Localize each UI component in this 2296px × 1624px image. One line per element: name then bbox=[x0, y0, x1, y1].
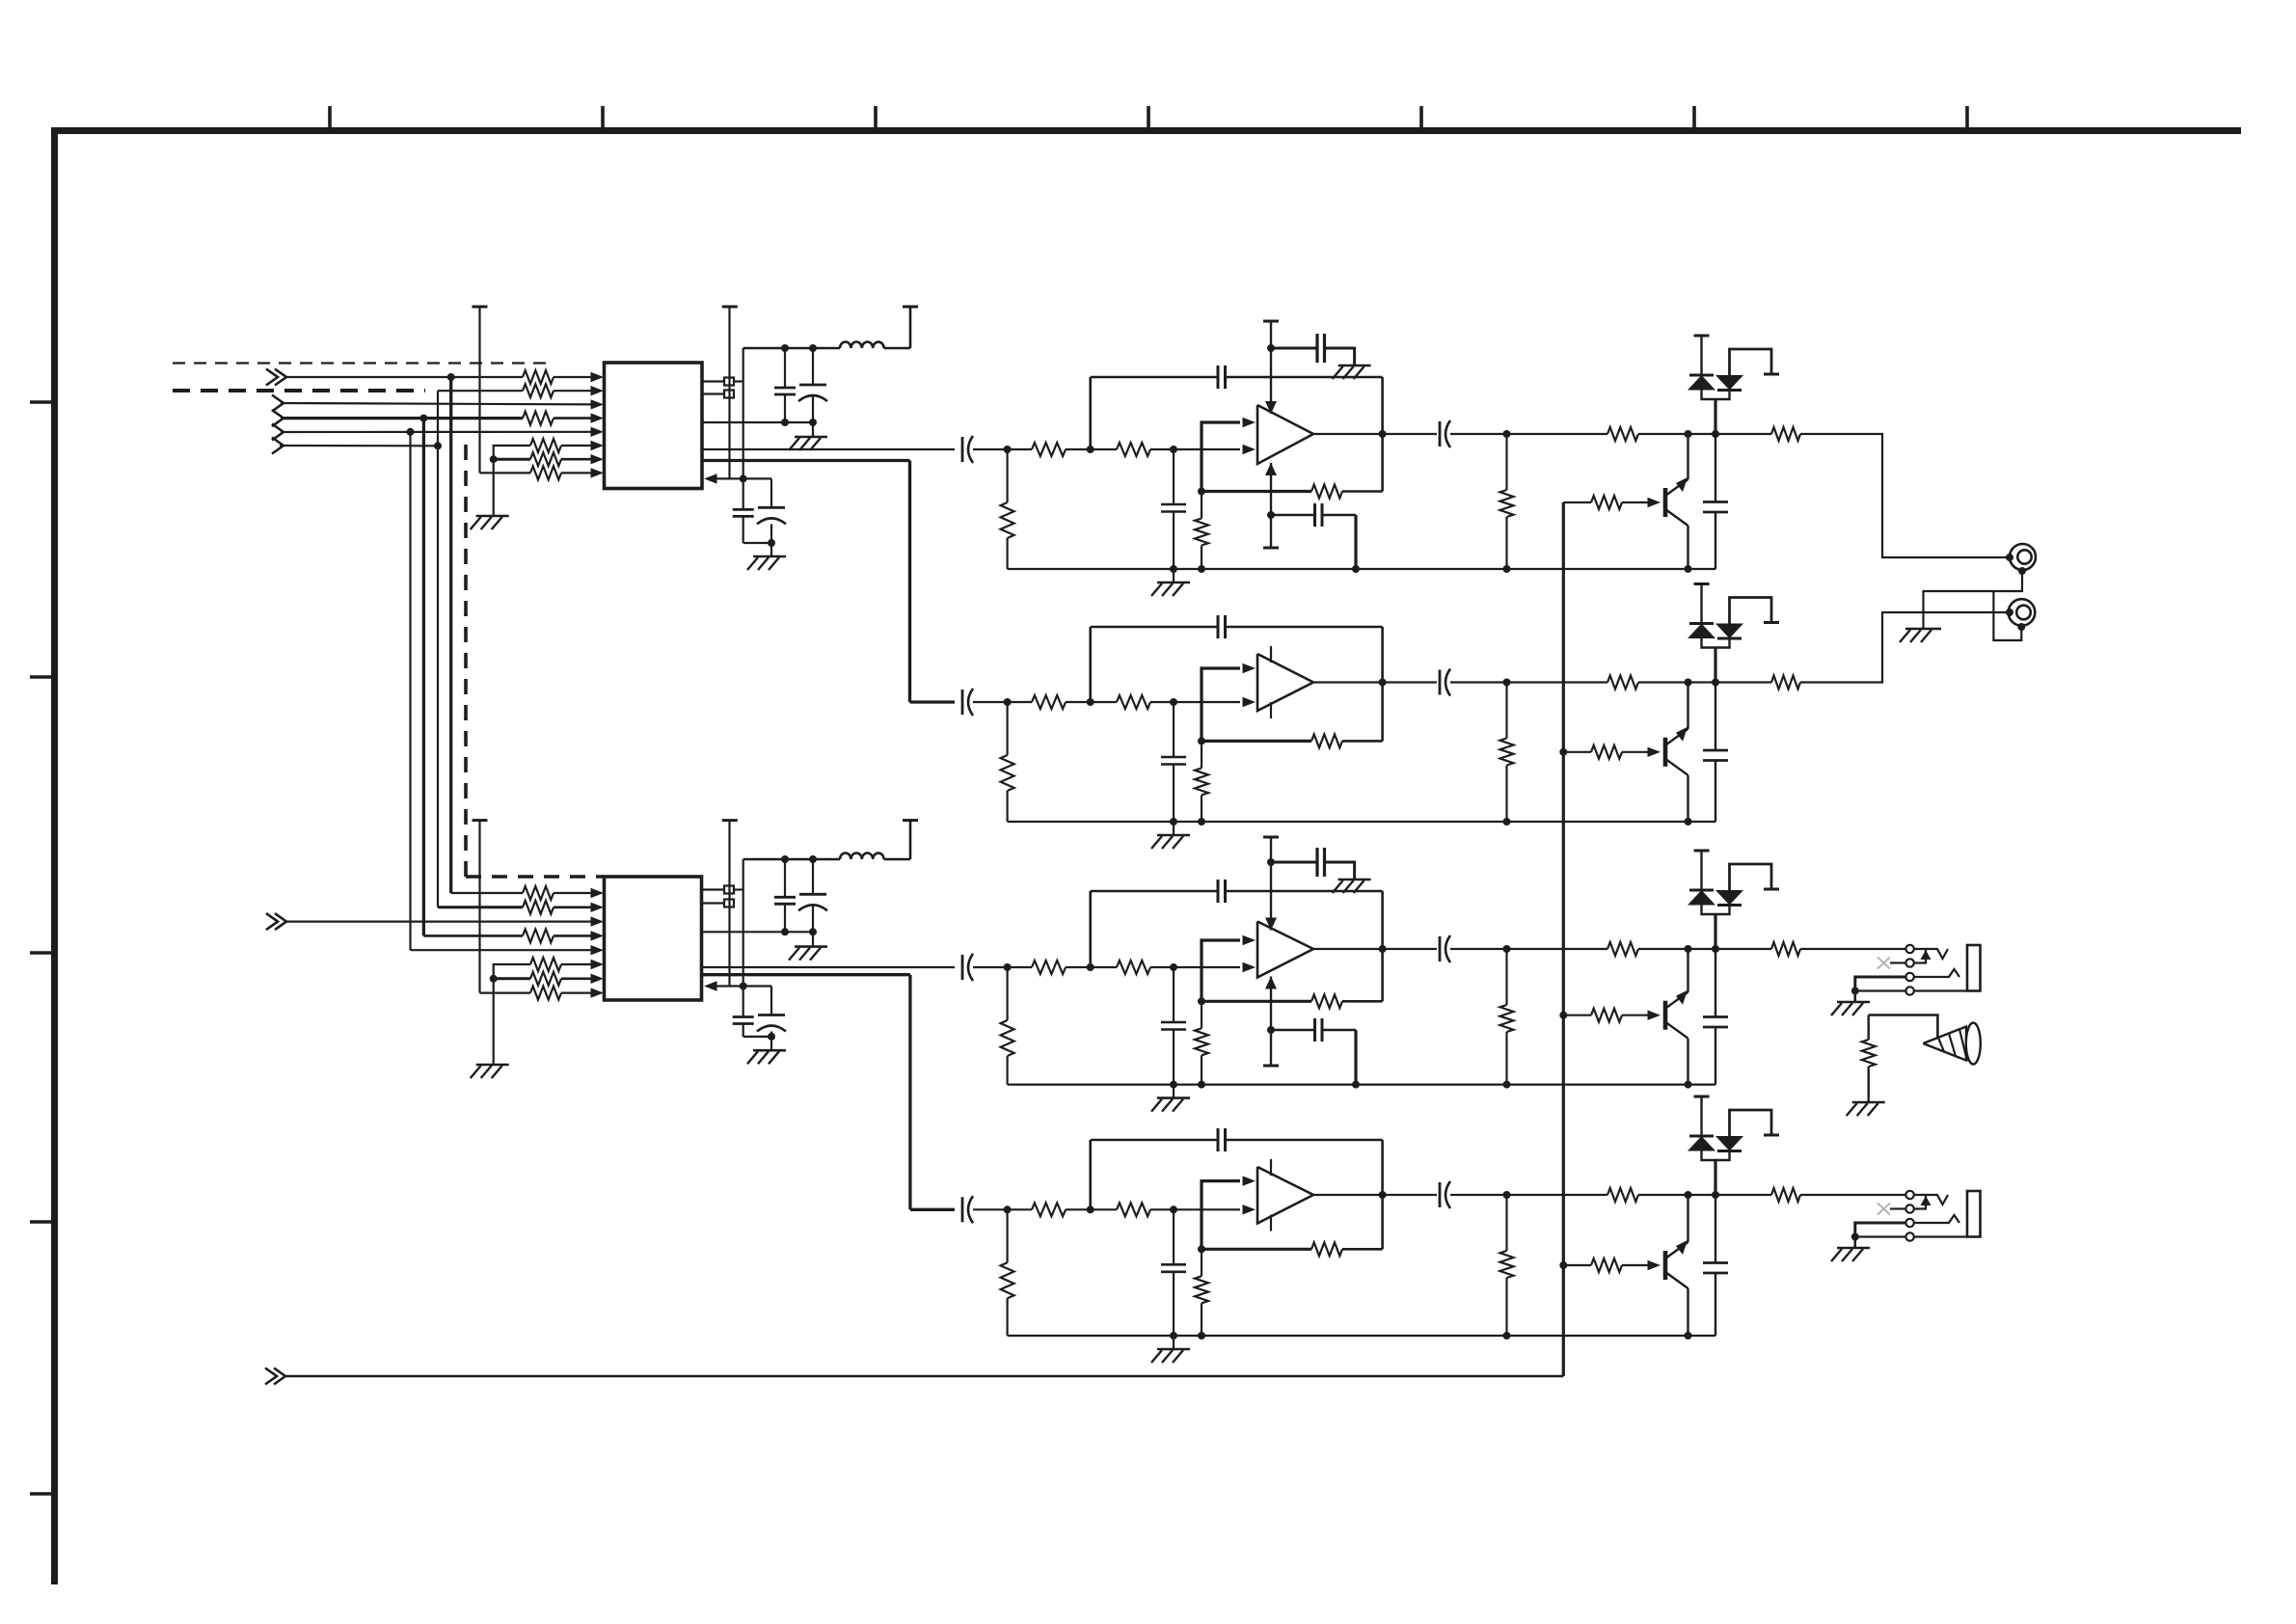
wire feedback bbox=[1202, 1000, 1311, 1003]
wire pin box a out bbox=[734, 888, 743, 890]
wire collector up bbox=[1687, 949, 1688, 992]
border tick top 7 bbox=[1965, 106, 1969, 130]
arrow Vplus stage 3 bbox=[1265, 918, 1277, 931]
wire bracket U2 pin7 bbox=[494, 977, 530, 980]
wire feedback down bbox=[1381, 891, 1384, 949]
wire bbox=[1150, 701, 1174, 703]
wire rail left down bbox=[743, 348, 744, 478]
jack contact J43 bbox=[1905, 1219, 1913, 1227]
inductor U2 bbox=[840, 853, 884, 860]
no-connect mark J4 bbox=[1877, 1204, 1890, 1215]
wire to feedback cap bbox=[1091, 626, 1218, 629]
junction node A bbox=[1087, 698, 1094, 706]
wire to U1 pin6 bbox=[561, 445, 594, 447]
input arrow IN3 bbox=[272, 410, 284, 426]
pin arrow U2 pin1 bbox=[591, 888, 605, 898]
op-amp U11 bbox=[1257, 405, 1313, 464]
junction rail bbox=[1198, 818, 1205, 826]
junction rail bbox=[809, 855, 817, 863]
wire bbox=[1854, 991, 1857, 1003]
ground bbox=[476, 515, 509, 518]
junction rail bbox=[1170, 1332, 1177, 1340]
wire U1 out B down bbox=[908, 461, 911, 703]
wire base bbox=[1622, 1264, 1649, 1266]
border tick left 2 bbox=[30, 675, 54, 679]
wire to U2 pin5 bbox=[411, 949, 595, 951]
transistor Q5 bbox=[1663, 488, 1668, 517]
junction bbox=[781, 928, 789, 935]
input arrow op-amp minus stage 4 bbox=[1243, 1204, 1256, 1214]
pin arrow U2 pin5 bbox=[591, 945, 605, 955]
border tick top 5 bbox=[1419, 106, 1423, 130]
wire bbox=[1505, 434, 1507, 490]
power terminal T U1 mid bbox=[722, 306, 738, 309]
wire up to T bbox=[909, 307, 912, 348]
input arrow op-amp minus stage 2 bbox=[1243, 697, 1256, 707]
diode D2 down bbox=[1715, 375, 1743, 391]
jack contact J44 bbox=[1905, 1232, 1913, 1240]
junction rail bbox=[1170, 565, 1177, 573]
input arrow op-amp plus stage 3 bbox=[1243, 935, 1256, 945]
junction collector bbox=[1685, 679, 1692, 687]
border tick left 3 bbox=[30, 951, 54, 955]
wire to feedback cap bbox=[1091, 1139, 1218, 1142]
op-amp U14 bbox=[1257, 1167, 1313, 1224]
wire Vplus down bbox=[1270, 837, 1272, 931]
input arrow op-amp minus stage 3 bbox=[1243, 962, 1256, 972]
resistor R feedback stage 1 bbox=[1311, 485, 1342, 499]
wire stage 4 output bbox=[1313, 1194, 1437, 1196]
wire bbox=[1854, 1237, 1857, 1249]
resistor R12 bbox=[530, 972, 561, 986]
wire jack J4 tip spring bbox=[1914, 1195, 1948, 1204]
wire vertical IN3 down bbox=[422, 419, 425, 936]
power terminal T U2 mid bbox=[722, 819, 738, 822]
wire bracket to ground bbox=[493, 459, 495, 516]
junction rail bbox=[1503, 565, 1511, 573]
resistor R out 2 bbox=[1771, 676, 1800, 690]
wire stage 4 plus input bbox=[1202, 1181, 1240, 1250]
wire bbox=[1066, 701, 1117, 703]
pin arrow U2 pin6 bbox=[591, 960, 605, 969]
resistor R base 3 bbox=[1591, 1009, 1622, 1022]
junction shunt bbox=[1503, 430, 1511, 438]
wire to U2 pin1 bbox=[554, 892, 594, 894]
wire IN5 to bus vertical bbox=[280, 445, 438, 447]
wire stage 1 output bbox=[1313, 433, 1437, 435]
wire to jack J3 bbox=[1800, 948, 1905, 950]
wire jack J4 sleeve bbox=[1914, 1235, 1967, 1237]
border tick top 1 bbox=[328, 106, 332, 130]
pin arrow U1 pin2 bbox=[591, 386, 605, 395]
transistor Q8 bbox=[1663, 1251, 1668, 1280]
capacitor C Vminus stage 3 bbox=[1313, 1018, 1316, 1042]
input arrow op-amp plus stage 4 bbox=[1243, 1176, 1256, 1185]
wire to R U2 pin2 bbox=[438, 906, 523, 908]
wire bbox=[1201, 741, 1202, 768]
resistor R out 4 bbox=[1771, 1188, 1800, 1202]
wire bbox=[1006, 791, 1008, 822]
wire up to T bbox=[909, 821, 912, 859]
wire to inverting input bbox=[1174, 448, 1240, 450]
wire diode bracket bbox=[1730, 349, 1772, 375]
wire emitter down bbox=[1687, 1039, 1688, 1085]
capacitor C feedback stage 1 bbox=[1217, 365, 1220, 389]
wire T to diode bbox=[1700, 851, 1702, 890]
junction IN4 branch bbox=[407, 428, 415, 436]
junction output bbox=[1379, 945, 1387, 953]
wire U1 out A bbox=[702, 448, 955, 450]
wire bbox=[1173, 569, 1175, 582]
resistor R4 bbox=[530, 466, 561, 479]
ground RCA bbox=[1905, 628, 1941, 631]
junction rail bbox=[1198, 1332, 1205, 1340]
arrow jack J4 switch bbox=[1921, 1196, 1931, 1205]
border tick left 4 bbox=[30, 1220, 54, 1224]
wire bbox=[1006, 702, 1008, 755]
transistor Q7 bbox=[1663, 1001, 1668, 1030]
junction rail bbox=[1198, 1081, 1205, 1089]
pin box U2 b bbox=[724, 900, 734, 907]
border tick top 3 bbox=[874, 106, 878, 130]
wire Vminus cap down bbox=[1354, 1030, 1357, 1085]
resistor R feedback stage 3 bbox=[1311, 994, 1342, 1008]
resistor R1 stage 2 bbox=[1032, 695, 1066, 709]
wire mute control bbox=[286, 1375, 1563, 1377]
wire jack J3 ring bbox=[1914, 969, 1959, 977]
wire feedback up bbox=[1381, 683, 1384, 742]
junction IN1 branch bbox=[447, 373, 455, 381]
junction jack ground bbox=[1851, 1233, 1859, 1241]
wire inductor to corner bbox=[884, 858, 910, 861]
wire mute row 2 bbox=[1450, 681, 1607, 683]
wire feedback bbox=[1202, 740, 1311, 743]
dashed bus line upper bbox=[173, 362, 548, 364]
junction feedback bbox=[1198, 1245, 1205, 1253]
border tick left 5 bbox=[30, 1492, 54, 1496]
junction node B bbox=[1170, 446, 1177, 453]
wire mute cap down bbox=[1715, 512, 1716, 569]
resistor R feedback stage 2 bbox=[1311, 734, 1342, 747]
pin arrow U2 in bbox=[704, 981, 717, 990]
wire bbox=[1715, 948, 1771, 950]
wire bracket U2 pin6 bbox=[494, 964, 530, 979]
wire to Vminus cap bbox=[1271, 514, 1315, 516]
wire bbox=[1201, 1249, 1202, 1276]
wire diodes to row bbox=[1714, 914, 1716, 949]
power terminal T Vplus stage 1 bbox=[1263, 320, 1279, 323]
power terminal T mute 2 bbox=[1694, 582, 1710, 585]
wire to rail bbox=[1173, 1272, 1175, 1336]
input arrow IN5 bbox=[272, 438, 284, 454]
junction emitter bbox=[1685, 565, 1692, 573]
wire bbox=[1322, 1029, 1356, 1031]
wire cap stub bbox=[812, 905, 814, 932]
capacitor C decoupling U2 bbox=[774, 896, 796, 899]
resistor R feedback stage 4 bbox=[1311, 1242, 1342, 1256]
wire to U1 pin2 bbox=[554, 390, 594, 392]
wire U2 out B down bbox=[908, 975, 911, 1210]
ground bbox=[476, 1064, 509, 1067]
wire to ground bbox=[812, 932, 814, 946]
wire U1 to pin box a bbox=[702, 380, 724, 382]
RCA jack J2 bbox=[2009, 599, 2036, 626]
junction rail bbox=[1352, 1081, 1360, 1089]
arrow base 1 bbox=[1648, 498, 1661, 507]
wire bbox=[1505, 1278, 1507, 1336]
pin arrow U2 pin8 bbox=[591, 988, 605, 997]
wire node A up bbox=[1089, 627, 1092, 702]
wire Vminus cap down bbox=[1354, 515, 1357, 569]
junction diodes bbox=[1712, 945, 1719, 953]
resistor R2 stage 4 bbox=[1117, 1203, 1150, 1216]
wire into U2 pin bbox=[708, 985, 743, 987]
pin arrow U1 pin8 bbox=[591, 468, 605, 477]
junction input bbox=[1004, 446, 1012, 453]
wire T4 down bbox=[478, 821, 480, 993]
wire lower caps top bbox=[743, 477, 771, 479]
capacitor C input stage 3 bbox=[961, 955, 964, 980]
junction collector bbox=[1685, 945, 1692, 953]
ground Vplus stage 3 bbox=[1338, 879, 1371, 881]
wire bracket pin7 bbox=[494, 458, 530, 461]
resistor R1 bbox=[523, 370, 554, 384]
capacitor C output stage 4 bbox=[1439, 1182, 1442, 1207]
junction feedback bbox=[1198, 997, 1205, 1005]
arrow Vplus stage 1 bbox=[1265, 401, 1277, 414]
capacitor C decoupling U1 bbox=[774, 387, 796, 390]
wire to mute cap bbox=[1715, 1195, 1716, 1263]
resistor R7 bbox=[523, 886, 554, 900]
wire node A up bbox=[1089, 377, 1092, 449]
resistor R detector bbox=[1862, 1040, 1876, 1067]
wire bbox=[1505, 1032, 1507, 1085]
junction bracket U2 bbox=[490, 975, 498, 983]
wire Vplus cap to ground bbox=[1325, 348, 1355, 365]
junction diodes bbox=[1712, 430, 1719, 438]
wire to feedback cap bbox=[1091, 890, 1218, 893]
inductor U1 bbox=[840, 342, 884, 349]
wire mute cap down bbox=[1715, 761, 1716, 823]
capacitor C mute 3 bbox=[1703, 1015, 1728, 1018]
ground jack J3 bbox=[1837, 1001, 1870, 1004]
capacitor C mute 2 bbox=[1703, 749, 1728, 752]
wire U2 supply rail bbox=[743, 858, 840, 861]
wire IN4 to U1 pin5 bbox=[281, 431, 594, 433]
power terminal Vminus stage 3 bbox=[1263, 1065, 1279, 1068]
wire to U1 pin1 bbox=[554, 376, 594, 378]
resistor R bias stage 2 bbox=[1195, 768, 1208, 795]
op-amp U13 bbox=[1257, 922, 1313, 978]
wire U2 to pin box b bbox=[702, 902, 725, 904]
arrow base 4 bbox=[1648, 1260, 1661, 1270]
wire feedback down bbox=[1381, 377, 1384, 434]
wire stage 3 plus input bbox=[1202, 940, 1240, 1001]
wire to U1 pin4 bbox=[554, 417, 594, 420]
power terminal T mute 3 bbox=[1694, 850, 1710, 853]
wire to ground bbox=[770, 1037, 772, 1050]
wire to mute cap bbox=[1715, 434, 1716, 502]
wire Vplus cap to ground bbox=[1325, 862, 1355, 879]
wire jack J4 gnd bbox=[1855, 1235, 1905, 1237]
wire to Vplus cap bbox=[1271, 861, 1317, 864]
wire to U2 pin2 bbox=[554, 906, 594, 908]
junction feedback bbox=[1198, 488, 1205, 496]
junction node A bbox=[1087, 963, 1094, 971]
wire bbox=[770, 524, 772, 543]
junction mute branch 3 bbox=[1559, 1012, 1567, 1019]
wire Vminus down bbox=[1270, 463, 1272, 548]
wire bbox=[1322, 514, 1356, 516]
junction lower caps bbox=[740, 983, 747, 990]
resistor R base 1 bbox=[1591, 496, 1622, 509]
capacitor C2 stage 3 bbox=[1161, 1021, 1186, 1024]
wire diodes to row bbox=[1714, 1160, 1716, 1195]
wire feedback bbox=[1202, 490, 1311, 493]
pin arrow U1 pin7 bbox=[591, 454, 605, 464]
junction Vminus bbox=[1267, 511, 1275, 519]
resistor R1 stage 4 bbox=[1032, 1203, 1066, 1216]
resistor R11 bbox=[530, 958, 561, 971]
wire to jack J4 bbox=[1800, 1194, 1905, 1196]
wire base bbox=[1622, 501, 1649, 503]
wire mute row 4b bbox=[1638, 1194, 1715, 1196]
diode D5 up bbox=[1689, 889, 1714, 892]
wire node B down bbox=[1173, 1209, 1175, 1264]
transducer horn bbox=[1923, 1027, 1966, 1061]
wire T mid down bbox=[728, 821, 730, 987]
wire bbox=[1201, 546, 1202, 570]
border tick left 1 bbox=[30, 400, 54, 404]
junction bbox=[781, 419, 789, 426]
wire emitter down bbox=[1687, 526, 1688, 569]
resistor R shunt mute 1 bbox=[1500, 490, 1514, 517]
wire jack J3 gnd L bbox=[1855, 977, 1905, 991]
wire feedback down bbox=[1381, 627, 1384, 683]
junction bbox=[768, 1033, 775, 1041]
diode D7 up bbox=[1689, 1135, 1714, 1138]
wire mute row 4 bbox=[1450, 1194, 1607, 1196]
wire IN1 to R bbox=[286, 376, 523, 378]
wire bbox=[1006, 1298, 1008, 1336]
junction node B bbox=[1170, 1205, 1177, 1213]
wire bbox=[1201, 1303, 1202, 1336]
dashed bus line lower bbox=[173, 389, 425, 392]
wire mute branch 2 bbox=[1563, 751, 1591, 753]
wire bbox=[1006, 1209, 1008, 1262]
wire jack J4 ring bbox=[1914, 1215, 1959, 1223]
wire bbox=[1201, 492, 1202, 519]
wire diode join bbox=[1702, 638, 1730, 648]
junction feedback bbox=[1198, 737, 1205, 744]
wire U1 supply rail bbox=[743, 347, 840, 350]
DAC IC U2 bbox=[605, 877, 702, 1000]
wire bbox=[1505, 683, 1507, 739]
no-connect mark J3 bbox=[1877, 958, 1890, 969]
resistor R out 3 bbox=[1771, 942, 1800, 956]
border tick top 2 bbox=[601, 106, 605, 130]
DAC IC U1 bbox=[605, 363, 703, 489]
capacitor C2 stage 2 bbox=[1161, 756, 1186, 759]
wire diodes to row bbox=[1714, 648, 1716, 683]
wire jack J4 gnd L bbox=[1855, 1223, 1905, 1237]
junction collector bbox=[1685, 430, 1692, 438]
wire base bbox=[1622, 1015, 1649, 1016]
diode D4 down bbox=[1715, 624, 1743, 639]
wire node A up bbox=[1089, 1140, 1092, 1209]
power stub bottom stage 2 bbox=[1270, 702, 1272, 718]
input arrow IN1 bbox=[266, 369, 278, 386]
wire to U1 pin7 bbox=[561, 458, 594, 461]
power terminal T mute 1 bbox=[1694, 335, 1710, 338]
junction emitter bbox=[1685, 1332, 1692, 1340]
wire to rail bbox=[1173, 1030, 1175, 1085]
wire stage 1 ground rail bbox=[1008, 568, 1715, 570]
wire U1 vref pin bbox=[702, 421, 813, 423]
input arrow IN4 bbox=[272, 424, 284, 441]
junction bbox=[768, 539, 775, 547]
wire vertical bus2 down bbox=[437, 391, 439, 907]
wire diode join bbox=[1702, 1151, 1730, 1161]
junction Vplus bbox=[1267, 344, 1275, 352]
capacitor C mute 1 bbox=[1703, 501, 1728, 503]
resistor R9 bbox=[523, 929, 554, 942]
wire T mid down bbox=[728, 307, 730, 478]
jack contact J33 bbox=[1905, 973, 1913, 981]
ground stage 2 bbox=[1157, 834, 1190, 837]
capacitor C lower U1 b bbox=[758, 506, 785, 509]
wire bbox=[1173, 822, 1175, 835]
pin arrow U2 pin4 bbox=[591, 931, 605, 940]
resistor R shunt stage 4 bbox=[1001, 1262, 1014, 1298]
resistor R out 1 bbox=[1771, 427, 1800, 441]
jack contact J42 bbox=[1905, 1204, 1913, 1212]
diode D1 up bbox=[1689, 374, 1714, 377]
transistor Q6 bbox=[1663, 738, 1668, 767]
ground stage 3 bbox=[1157, 1096, 1190, 1099]
wire cap stub bbox=[812, 859, 814, 894]
wire to R U2 pin4 bbox=[423, 934, 523, 937]
wire jack J3 sleeve bbox=[1914, 989, 1967, 991]
jack contact J32 bbox=[1905, 959, 1913, 966]
junction rail bbox=[1503, 818, 1511, 826]
junction node B bbox=[1170, 698, 1177, 706]
capacitor C input stage 1 bbox=[961, 437, 964, 462]
ground bbox=[795, 436, 827, 439]
power terminal Vminus stage 1 bbox=[1263, 547, 1279, 550]
junction collector bbox=[1685, 1191, 1692, 1199]
power stub top stage 4 bbox=[1270, 1159, 1272, 1176]
wire stage 4 ground rail bbox=[1008, 1335, 1715, 1337]
wire bbox=[1006, 449, 1008, 502]
pin arrow U1 pin5 bbox=[591, 427, 605, 437]
ground stage 1 bbox=[1157, 582, 1190, 584]
pin arrow U2 pin7 bbox=[591, 974, 605, 984]
wire feedback up bbox=[1381, 949, 1384, 1001]
resistor R1 stage 1 bbox=[1032, 443, 1066, 456]
wire bbox=[1342, 490, 1383, 493]
input arrow op-amp minus stage 1 bbox=[1243, 445, 1256, 454]
wire mute row 1 bbox=[1450, 433, 1607, 435]
wire cap stub bbox=[784, 859, 786, 897]
power stub bar mute 4 bbox=[1764, 1134, 1779, 1137]
jack sleeve J4 bbox=[1967, 1191, 1981, 1237]
wire U1 out B to stage2 bbox=[910, 700, 956, 703]
wire to inverting input bbox=[1174, 1208, 1240, 1210]
wire bbox=[1006, 538, 1008, 569]
ground jack J4 bbox=[1837, 1247, 1870, 1250]
pin box U1 a bbox=[724, 378, 734, 386]
